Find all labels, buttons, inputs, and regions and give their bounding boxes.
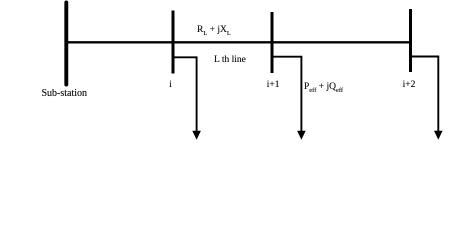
wire: lateral from bus i+1 — [272, 57, 301, 132]
load arrowhead at bus i+2 lateral — [434, 131, 443, 140]
load arrowhead at bus i lateral — [192, 131, 201, 140]
wire: lateral from bus i — [173, 57, 197, 131]
label: node i+1 — [267, 80, 280, 90]
wire: lateral from bus i+2 — [411, 57, 438, 132]
label: line impedance RL + jXL — [197, 25, 231, 37]
load arrowhead at bus i+1 lateral — [297, 131, 306, 140]
label: L th line — [214, 55, 246, 65]
bus i+1 bar — [271, 12, 274, 73]
label: Sub-station — [42, 88, 88, 99]
bus i+2 bar — [409, 9, 412, 72]
feeder main line — [66, 41, 411, 43]
label: load Peff + jQeff — [304, 82, 343, 94]
bus i bar — [172, 11, 175, 74]
label: node i+2 — [403, 80, 416, 90]
substation bus bar — [64, 3, 68, 85]
label: node i — [169, 80, 172, 90]
